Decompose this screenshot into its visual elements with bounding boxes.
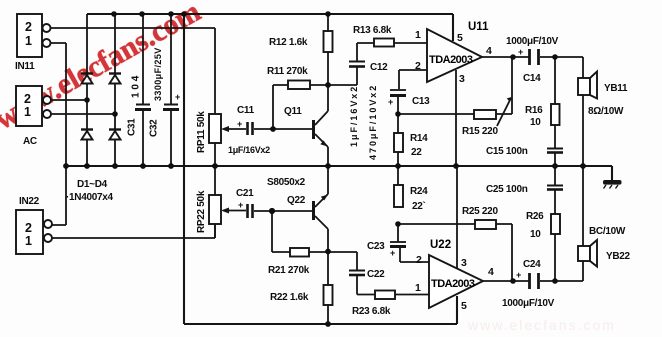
svg-text:2: 2 [25, 20, 32, 34]
svg-text:8Ω/10W: 8Ω/10W [588, 106, 624, 117]
svg-text:C23: C23 [367, 241, 385, 252]
svg-text:4: 4 [486, 45, 492, 57]
svg-text:C21: C21 [236, 188, 254, 199]
svg-text:1μF/16Vx2: 1μF/16Vx2 [349, 87, 359, 147]
svg-text:U11: U11 [468, 21, 489, 33]
svg-text:C11: C11 [237, 105, 255, 116]
svg-text:1: 1 [25, 34, 32, 48]
svg-text:C31: C31 [127, 118, 138, 136]
svg-text:+: + [238, 200, 243, 210]
svg-text:TDA2003: TDA2003 [429, 54, 473, 66]
svg-text:3300μF/25V: 3300μF/25V [153, 48, 163, 101]
svg-text:R26: R26 [526, 211, 544, 222]
svg-text:R22 1.6k: R22 1.6k [270, 292, 309, 303]
svg-text:R23 6.8k: R23 6.8k [352, 306, 391, 317]
svg-text:10: 10 [530, 229, 541, 240]
svg-text:3: 3 [461, 257, 467, 269]
svg-text:3: 3 [459, 73, 465, 85]
svg-text:5: 5 [457, 32, 463, 44]
svg-text:1: 1 [415, 282, 421, 294]
svg-text:R11 270k: R11 270k [267, 66, 308, 77]
svg-text:1: 1 [415, 29, 421, 41]
svg-text:R25 220: R25 220 [462, 206, 498, 217]
svg-text:10: 10 [530, 117, 541, 128]
svg-text:+: + [518, 47, 523, 57]
svg-text:C25 100n: C25 100n [486, 184, 528, 195]
svg-text:R16: R16 [525, 105, 543, 116]
svg-text:C13: C13 [412, 96, 430, 107]
svg-text:1: 1 [24, 105, 31, 119]
svg-text:YB22: YB22 [606, 251, 631, 262]
svg-text:C32: C32 [149, 119, 160, 137]
svg-text:22: 22 [411, 147, 422, 158]
svg-text:R13 6.8k: R13 6.8k [353, 25, 392, 36]
svg-text:C24: C24 [523, 259, 541, 270]
svg-text:D1~D4: D1~D4 [77, 179, 108, 190]
svg-text:IN22: IN22 [19, 196, 40, 207]
svg-text:+: + [516, 270, 521, 280]
svg-text:RP22 50k: RP22 50k [196, 190, 207, 233]
svg-text:4: 4 [488, 266, 494, 278]
svg-text:+: + [237, 119, 242, 129]
svg-text:2: 2 [24, 92, 31, 106]
svg-text:C22: C22 [367, 269, 385, 280]
svg-text:C15 100n: C15 100n [486, 146, 528, 157]
svg-text:www.elecfans.com: www.elecfans.com [467, 317, 616, 333]
svg-text:RP11 50k: RP11 50k [196, 111, 207, 153]
svg-text:R12 1.6k: R12 1.6k [269, 37, 308, 48]
svg-text:1: 1 [25, 234, 32, 248]
svg-text:2: 2 [415, 60, 421, 72]
svg-text:·1N4007x4: ·1N4007x4 [66, 192, 114, 203]
svg-text:+: + [388, 97, 393, 107]
svg-text:U22: U22 [430, 239, 451, 251]
svg-text:104: 104 [131, 75, 142, 98]
svg-text:R15 220: R15 220 [462, 126, 498, 137]
svg-text:1000μF/10V: 1000μF/10V [506, 36, 559, 47]
svg-text:C12: C12 [370, 62, 388, 73]
svg-text:+: + [390, 248, 395, 258]
svg-text:+: + [175, 92, 180, 102]
svg-text:5: 5 [461, 300, 467, 312]
svg-text:2: 2 [416, 254, 422, 266]
svg-text:22`: 22` [412, 201, 426, 212]
svg-text:AC: AC [23, 136, 37, 147]
svg-text:1000μF/10V: 1000μF/10V [502, 298, 555, 309]
svg-text:470μF/10Vx2: 470μF/10Vx2 [368, 86, 378, 160]
svg-text:1μF/16Vx2: 1μF/16Vx2 [228, 145, 270, 155]
svg-text:YB11: YB11 [604, 83, 628, 94]
svg-text:TDA2003: TDA2003 [431, 278, 475, 290]
svg-text:BC/10W: BC/10W [589, 226, 626, 237]
svg-text:R21 270k: R21 270k [268, 265, 310, 276]
svg-text:2: 2 [25, 221, 32, 235]
svg-text:R24: R24 [410, 186, 428, 197]
svg-text:Q22: Q22 [287, 195, 306, 206]
svg-text:C14: C14 [523, 73, 541, 84]
svg-text:R14: R14 [410, 133, 428, 144]
svg-text:IN11: IN11 [15, 61, 35, 72]
svg-text:Q11: Q11 [284, 106, 302, 117]
svg-text:S8050x2: S8050x2 [267, 177, 306, 188]
